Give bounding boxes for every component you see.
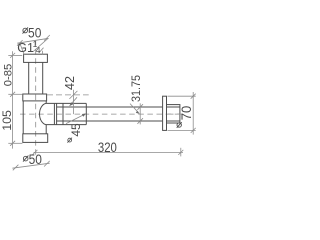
top flange xyxy=(24,54,48,62)
svg-text:50: 50 xyxy=(29,151,42,167)
dimension 0-85 left xyxy=(3,51,23,148)
dimension diameter 70 xyxy=(168,92,196,135)
svg-text:G1: G1 xyxy=(17,41,34,55)
dimension 31.75 xyxy=(130,75,143,124)
svg-text:70: 70 xyxy=(179,106,194,121)
wire horizontal centerline through nut xyxy=(168,113,183,115)
wall flange xyxy=(163,96,167,130)
outlet pipe walls xyxy=(57,106,163,108)
svg-text:42: 42 xyxy=(62,76,77,90)
bottom cap nut xyxy=(23,134,48,143)
dimension diameter 45 xyxy=(66,114,86,143)
dimension diameter 50 bottom xyxy=(12,151,49,171)
right nut xyxy=(167,105,180,123)
svg-text:320: 320 xyxy=(98,140,117,155)
svg-text:50: 50 xyxy=(28,25,41,41)
sleeve outer walls xyxy=(54,102,86,104)
dimension 320 xyxy=(32,140,183,156)
sleeve end step xyxy=(85,103,87,124)
svg-text:31.75: 31.75 xyxy=(131,75,143,102)
svg-text:105: 105 xyxy=(0,110,14,131)
dimension 42 xyxy=(47,76,89,114)
inlet pipe xyxy=(28,62,30,94)
dimension diameter 50 top xyxy=(17,25,50,55)
trap body xyxy=(22,101,24,134)
svg-text:0-85: 0-85 xyxy=(3,64,15,86)
svg-text:45: 45 xyxy=(69,123,83,137)
wire vertical centerline of inlet xyxy=(35,40,37,156)
top cap nut xyxy=(23,94,47,101)
nut on elbow xyxy=(53,103,55,124)
wire horizontal centerline of outlet xyxy=(20,113,183,115)
elbow rounded piece xyxy=(40,103,55,124)
